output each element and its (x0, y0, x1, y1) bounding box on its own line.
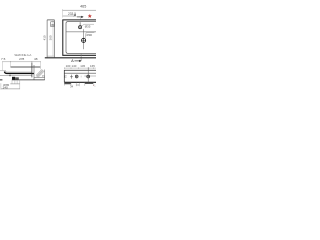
deck line (66, 31, 96, 33)
side view right edge (54, 20, 56, 58)
overflow box side (51, 22, 55, 27)
shelf line 1 (64, 72, 96, 74)
side view top edge (47, 19, 54, 21)
faucet label leader (81, 24, 94, 26)
drain circle front (87, 75, 90, 78)
left ext (0, 83, 2, 89)
7.5 pointer line (0, 70, 6, 72)
extension line left (62, 11, 64, 18)
wall right edge (44, 70, 46, 80)
svg-text:A: A (71, 58, 74, 63)
drain centerline front (87, 67, 89, 82)
side view bottom thin line (47, 55, 54, 57)
faucet hole circle (79, 26, 82, 29)
svg-text:100: 100 (66, 64, 71, 68)
section line bottom tail (80, 54, 82, 61)
svg-text:278: 278 (19, 57, 24, 61)
below-box extension lines (12, 80, 20, 89)
back wall vertical 2 (33, 65, 35, 80)
dim 233.5 line (63, 15, 75, 17)
svg-text:360: 360 (48, 35, 52, 40)
shelf line 2 right (84, 75, 96, 77)
lower dim line 1 (10, 83, 19, 85)
faucet hole centerline (79, 22, 81, 25)
extension lines (2, 63, 4, 71)
svg-text:145: 145 (80, 64, 85, 68)
svg-text:48: 48 (34, 57, 38, 61)
left stub dash (0, 79, 2, 80)
bowl outer bottom thick (4, 72, 34, 74)
under line (0, 75, 32, 77)
wall hatch band (36, 69, 44, 77)
section line top tail (80, 17, 82, 19)
svg-text:Ø90: Ø90 (86, 33, 92, 37)
svg-text:34: 34 (70, 84, 74, 88)
hole cross 1 (70, 75, 73, 79)
section bottom line (12, 79, 45, 81)
lower dim line 2 (1, 88, 20, 90)
front outer rect top+left (64, 70, 96, 82)
svg-text:165: 165 (90, 64, 95, 68)
svg-text:A: A (74, 13, 77, 18)
front dim line (64, 67, 96, 69)
bottom dim bar 2 (85, 82, 94, 84)
svg-text:86: 86 (51, 23, 54, 27)
svg-text:75: 75 (64, 74, 68, 78)
rim top line (11, 66, 41, 68)
drain centerline (83, 29, 85, 49)
svg-text:7.5: 7.5 (1, 57, 6, 61)
drain label leader (85, 33, 95, 39)
side view left edge (46, 20, 48, 58)
bottom ticks (64, 83, 93, 87)
shelf line section (34, 76, 45, 78)
side view inner line (52, 20, 54, 56)
front bottom edge (64, 81, 96, 83)
hole circle 2 (75, 75, 78, 78)
back wall vertical 1 (31, 63, 33, 78)
section dim line (3, 61, 41, 63)
faint tick 3 (80, 76, 82, 78)
bottom dim bar 1 (64, 83, 71, 85)
svg-text:140: 140 (72, 64, 77, 68)
drain fitting dark (12, 77, 15, 80)
plan inner rim (66, 22, 96, 54)
svg-text:Ø35: Ø35 (85, 24, 91, 28)
svg-text:410: 410 (43, 35, 47, 40)
junction tick (10, 75, 11, 77)
svg-text:465: 465 (80, 5, 86, 9)
bowl inner bottom (5, 70, 32, 73)
drain circle (82, 38, 86, 42)
plan outer rect (63, 20, 96, 55)
red star (88, 14, 92, 18)
dim 465 line (63, 9, 96, 11)
